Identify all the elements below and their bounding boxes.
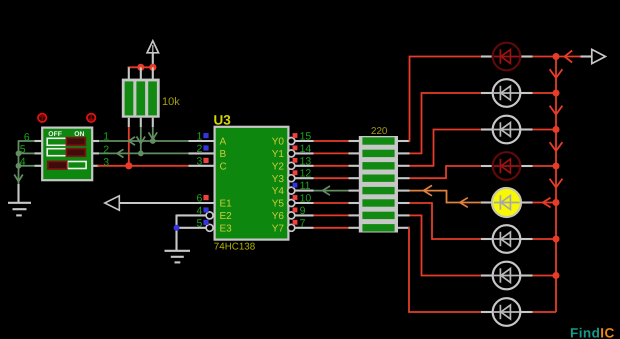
- svg-text:Y3: Y3: [272, 174, 285, 185]
- svg-text:Y2: Y2: [272, 161, 285, 172]
- wire LED D6 to cathode bus: [533, 238, 557, 240]
- wire E2 to ground net: [177, 214, 207, 216]
- current arrow left on LED D5 anode wire: [460, 198, 468, 208]
- switch pin stub left row1: [35, 140, 43, 142]
- junction line B / RN1b: [138, 151, 144, 157]
- LED D1 diode symbol: [494, 56, 520, 58]
- RN1 lead bottom b: [140, 118, 142, 127]
- U3 output pin stub Y0: [295, 140, 314, 142]
- wire ground rail vertical: [18, 140, 20, 184]
- LED D8 stub right: [520, 311, 532, 313]
- current arrow left on line A: [129, 137, 136, 145]
- wire LED D8 to cathode bus: [533, 311, 557, 313]
- wire RN2 row5 to LED D6: [410, 202, 433, 204]
- wire cathode bus vertical: [555, 57, 557, 313]
- LED D7 body: [493, 262, 521, 290]
- svg-text:14: 14: [300, 143, 312, 155]
- svg-text:B: B: [220, 149, 227, 160]
- RN2 resistor bar row3: [362, 175, 394, 182]
- RN2 lead right row2: [398, 165, 410, 167]
- dip switch actuator row1 (ON): [66, 138, 85, 146]
- wire RN2 row3 to LED D4: [410, 177, 447, 179]
- U3 pin 1 stub: [189, 140, 214, 142]
- current arrow down on bus seg4: [550, 179, 563, 188]
- RN2 lead right row3: [398, 177, 410, 179]
- svg-text:12: 12: [300, 168, 312, 180]
- RN2 lead right row4: [398, 190, 410, 192]
- svg-text:1: 1: [103, 131, 109, 143]
- wire RN2 row7 to LED D8: [408, 227, 410, 313]
- resistor network RN1 body (10k x3): [122, 79, 160, 118]
- dip switch slot row2: [47, 149, 66, 156]
- U3 pin 9 state square: [293, 208, 298, 213]
- dip switch SW1 down button: [87, 114, 95, 122]
- U3 pin 11 state square: [293, 183, 298, 188]
- U3 pin 15 state square: [293, 133, 298, 138]
- wire RN2 row4 to LED D5: [410, 190, 447, 192]
- junction line A / RN1c: [150, 138, 156, 144]
- resistor network RN2 body (220 x8): [359, 136, 398, 233]
- wire line B (switch2 to U3.B): [99, 152, 189, 154]
- wire RN2 row2 to LED D3: [410, 165, 434, 167]
- U3 pin 6 state square: [203, 195, 208, 200]
- dip switch SW1 body: [42, 128, 92, 181]
- svg-text:15: 15: [300, 131, 312, 143]
- LED D8 stub left: [481, 311, 493, 313]
- wire E3 to ground net: [177, 227, 207, 229]
- svg-text:2: 2: [197, 143, 203, 155]
- junction bus row5: [553, 199, 560, 206]
- wire bus to power terminal: [556, 56, 581, 58]
- current arrow down on RN1c lead: [149, 132, 158, 139]
- U3 output bubble Y7: [288, 224, 295, 231]
- resistor network RN1 lead top c: [152, 67, 154, 79]
- U3 output pin stub Y1: [295, 152, 314, 154]
- U3 output bubble Y2: [288, 162, 295, 169]
- current arrow left on LED D5 cathode-bus wire: [543, 198, 551, 208]
- LED D6 body: [493, 225, 521, 253]
- wire Y0 to resistor pack: [314, 140, 349, 142]
- svg-text:6: 6: [24, 131, 30, 143]
- LED D4 stub left: [481, 165, 493, 167]
- U3 output bubble Y0: [288, 138, 295, 145]
- U3 output bubble Y4: [288, 187, 295, 194]
- resistor network RN1 lead top b: [140, 67, 142, 79]
- U3 pin 1 state square: [203, 133, 208, 138]
- svg-text:220: 220: [371, 126, 388, 137]
- LED D2 stub left: [481, 92, 493, 94]
- U3 pin 2 state square: [203, 145, 208, 150]
- svg-text:E2: E2: [220, 211, 233, 222]
- U3 pin 2 stub: [189, 152, 214, 154]
- power terminal arrow right: [592, 49, 606, 63]
- LED D1 stub left: [481, 55, 493, 57]
- wire switch pin4 to ground rail: [19, 165, 35, 167]
- LED D3 stub right: [520, 128, 532, 130]
- RN1 lead bottom c: [152, 118, 154, 127]
- ground symbol under E pins: [165, 250, 191, 252]
- RN2 lead left row4: [349, 190, 360, 192]
- dip switch SW1 up button: [38, 114, 46, 122]
- svg-text:6: 6: [197, 193, 203, 205]
- LED D3 stub left: [481, 128, 493, 130]
- U3 pin 12 state square: [293, 170, 298, 175]
- wire RN1a to line C (pulled high): [128, 127, 130, 167]
- svg-text:OFF: OFF: [48, 131, 62, 138]
- junction ground rail row5: [16, 151, 22, 157]
- wire RN2 row0 to LED D1: [409, 56, 411, 142]
- terminal arrow left at E1: [119, 202, 213, 204]
- wire RN2 row6 to LED D7: [410, 214, 422, 216]
- svg-text:3: 3: [103, 157, 109, 169]
- RN2 lead right row7: [398, 227, 410, 229]
- U3 output bubble Y5: [288, 200, 295, 207]
- RN1 lead bottom a: [128, 118, 130, 127]
- U3 E2 bubble: [206, 212, 213, 219]
- RN2 lead left row7: [349, 227, 360, 229]
- svg-text:10k: 10k: [162, 96, 180, 108]
- current arrow left near power terminal: [565, 51, 573, 63]
- svg-text:9: 9: [300, 205, 306, 217]
- LED D8 body: [493, 298, 521, 326]
- wire line C (switch3 to U3.C) logic high: [97, 165, 189, 167]
- U3 pin 3 stub: [189, 165, 214, 167]
- wire switch pin5 to ground rail: [19, 152, 35, 154]
- LED D3 diode symbol: [494, 129, 520, 131]
- U3 pin 13 state square: [293, 158, 298, 163]
- U3 E3 bubble: [206, 224, 213, 231]
- RN2 resistor bar row0: [362, 137, 394, 144]
- U3 pin 5 state square: [203, 220, 208, 225]
- junction bus row2: [553, 90, 560, 97]
- wire RN1c to line A: [152, 127, 154, 141]
- dip switch slot row3: [68, 162, 87, 169]
- wire ground net vertical: [175, 215, 177, 251]
- LED D2 diode symbol: [494, 92, 520, 94]
- LED D8 diode symbol: [494, 311, 520, 313]
- RN2 lead left row5: [349, 202, 360, 204]
- ground symbol left: [8, 202, 31, 204]
- IC U3 74HC138 body: [214, 126, 290, 241]
- svg-text:Y6: Y6: [272, 211, 285, 222]
- RN2 resistor bar row1: [362, 150, 394, 157]
- dip switch slot row1: [47, 138, 66, 145]
- dip switch actuator row2 (ON): [66, 149, 85, 157]
- LED D7 stub right: [520, 274, 532, 276]
- U3 output pin stub Y6: [295, 214, 314, 216]
- resistor network RN1 lead top a: [128, 67, 130, 79]
- U3 output pin stub Y5: [295, 202, 314, 204]
- dip switch actuator row3 (OFF): [48, 161, 67, 169]
- U3 pin 3 state square: [203, 158, 208, 163]
- LED D3 body: [493, 116, 521, 144]
- junction bus row3: [553, 126, 560, 133]
- svg-text:7: 7: [300, 217, 306, 229]
- LED D4 body: [493, 152, 521, 180]
- U3 pin 10 state square: [293, 195, 298, 200]
- RN2 lead left row1: [349, 152, 360, 154]
- switch pin stub left row2: [35, 152, 43, 154]
- U3 output pin stub Y3: [295, 177, 314, 179]
- current arrow left on Y4 net (pack side): [424, 185, 433, 195]
- U3 output pin stub Y2: [295, 165, 314, 167]
- wire Y4 to resistor pack: [314, 190, 349, 192]
- svg-text:Y0: Y0: [272, 137, 285, 148]
- svg-text:E1: E1: [220, 199, 233, 210]
- svg-text:3: 3: [197, 156, 203, 168]
- U3 pin 4 state square: [203, 207, 208, 212]
- LED D4 stub right: [520, 165, 532, 167]
- RN2 resistor bar row5: [362, 199, 394, 206]
- svg-text:Y5: Y5: [272, 199, 285, 210]
- RN2 lead right row6: [398, 214, 410, 216]
- switch pin stub left row3: [35, 165, 43, 167]
- svg-text:5: 5: [20, 144, 26, 156]
- wire LED D2 to cathode bus: [533, 92, 557, 94]
- wire Y1 to resistor pack: [314, 152, 349, 154]
- RN2 resistor bar row4: [362, 187, 394, 194]
- LED D5 stub right: [520, 201, 532, 203]
- svg-text:1: 1: [197, 131, 203, 143]
- svg-text:Y1: Y1: [272, 149, 285, 160]
- LED D5 stub left: [481, 201, 493, 203]
- junction bus row6: [553, 236, 560, 243]
- U3 pin 14 state square: [293, 146, 298, 151]
- svg-text:A: A: [220, 137, 227, 148]
- svg-text:E3: E3: [220, 223, 233, 234]
- svg-text:FindIC: FindIC: [570, 326, 615, 339]
- ground pin stub left: [17, 184, 19, 203]
- RN2 resistor bar row6: [362, 212, 394, 219]
- svg-text:ON: ON: [74, 131, 84, 138]
- RN2 lead right row5: [398, 202, 410, 204]
- LED D2 stub right: [520, 92, 532, 94]
- RN2 lead left row2: [349, 165, 360, 167]
- RN2 lead left row0: [349, 140, 360, 142]
- wire Y7 to resistor pack: [314, 227, 349, 229]
- current arrow left on Y4 wire: [323, 186, 331, 195]
- svg-text:4: 4: [20, 156, 26, 168]
- svg-text:Y7: Y7: [272, 223, 285, 234]
- LED D7 diode symbol: [494, 275, 520, 277]
- LED D2 body: [493, 79, 521, 107]
- LED D6 stub left: [481, 238, 493, 240]
- wire Y2 to resistor pack: [314, 165, 349, 167]
- RN2 lead left row6: [349, 214, 360, 216]
- RN2 resistor bar row2: [362, 162, 394, 169]
- junction bus row4: [553, 163, 560, 170]
- LED D1 body: [493, 43, 521, 71]
- wire RN2 row1 to LED D2: [410, 152, 422, 154]
- U3 output bubble Y1: [288, 150, 295, 157]
- U3 output pin stub Y4: [295, 190, 314, 192]
- switch pin stub right row2: [92, 152, 99, 154]
- U3 output bubble Y3: [288, 175, 295, 182]
- current arrow down on bus seg3: [550, 142, 563, 151]
- svg-text:11: 11: [300, 180, 311, 192]
- LED D6 stub right: [520, 238, 532, 240]
- junction line C / RN1a: [125, 162, 132, 169]
- LED D7 stub left: [481, 274, 493, 276]
- junction RN1 top middle: [137, 64, 144, 71]
- svg-text:10: 10: [300, 193, 312, 205]
- switch pin stub right row3: [92, 165, 99, 167]
- wire LED D3 to cathode bus: [533, 129, 557, 131]
- RN2 lead right row0: [398, 140, 410, 142]
- wire RN1b to line B: [140, 127, 142, 153]
- junction RN1 top right: [149, 64, 156, 71]
- LED D5 body: [492, 188, 521, 217]
- wire Y3 to resistor pack: [314, 177, 349, 179]
- LED D5 diode symbol: [494, 202, 520, 204]
- RN2 lead left row3: [349, 177, 360, 179]
- wire Y5 to resistor pack: [314, 202, 349, 204]
- svg-text:2: 2: [103, 144, 109, 156]
- wire line A (switch1 to U3.A): [99, 140, 189, 142]
- wire Y6 to resistor pack: [314, 214, 349, 216]
- current arrow down on RN1b lead: [137, 137, 146, 144]
- wire LED D7 to cathode bus: [533, 275, 557, 277]
- wire switch pin6 to ground rail: [19, 140, 35, 142]
- switch pin stub right row1: [92, 140, 99, 142]
- U3 pin 7 state square: [293, 220, 298, 225]
- current arrow down on bus seg2: [550, 106, 563, 115]
- LED D4 diode symbol: [494, 165, 520, 167]
- junction bus row1: [553, 53, 560, 60]
- svg-text:Y4: Y4: [272, 186, 285, 197]
- wire LED D1 to cathode bus: [533, 56, 557, 58]
- LED D1 stub right: [520, 55, 532, 57]
- RN2 resistor bar row7: [362, 224, 394, 231]
- junction bus row7: [553, 272, 560, 279]
- wire VCC to resistor network top: [128, 66, 153, 68]
- U3 output bubble Y6: [288, 212, 295, 219]
- junction E2/E3 ground net: [174, 225, 180, 231]
- wire LED D5 to cathode bus: [533, 202, 557, 204]
- RN2 lead right row1: [398, 152, 410, 154]
- current arrow left on line B: [117, 149, 124, 157]
- svg-text:U3: U3: [214, 112, 232, 127]
- junction ground rail row4: [16, 163, 22, 169]
- U3 output pin stub Y7: [295, 227, 314, 229]
- power terminal up arrow (VCC): [152, 53, 154, 68]
- current arrow down on bus seg1: [550, 69, 563, 78]
- LED D6 diode symbol: [494, 238, 520, 240]
- svg-text:C: C: [220, 161, 227, 172]
- svg-text:74HC138: 74HC138: [214, 242, 256, 253]
- wire LED D4 to cathode bus: [533, 165, 557, 167]
- svg-text:13: 13: [300, 155, 312, 167]
- power terminal right stub: [581, 55, 592, 57]
- current arrow down on ground rail: [14, 175, 23, 182]
